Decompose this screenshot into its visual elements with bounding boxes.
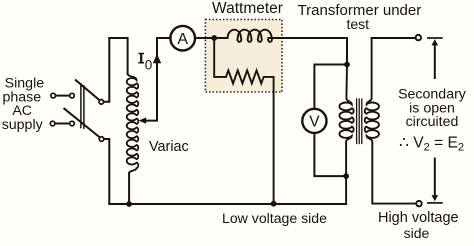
junction pressure coil bottom rail [271, 201, 277, 207]
wire pole 1 contact to top rail [104, 38, 110, 102]
wire primary top riser [346, 38, 348, 65]
junction node wattmeter input [211, 35, 217, 41]
wire ammeter to wattmeter [195, 37, 214, 39]
svg-text:side: side [404, 225, 430, 241]
svg-text:0: 0 [145, 58, 153, 73]
switch pole 1 fixed contact [99, 100, 104, 105]
svg-text:A: A [177, 31, 188, 48]
label I0 [138, 53, 152, 73]
wattmeter box W [205, 20, 282, 93]
svg-text:High voltage: High voltage [378, 210, 459, 226]
svg-text:test: test [347, 16, 370, 32]
bottom rail wire [109, 203, 346, 205]
terminal secondary bottom [416, 201, 421, 206]
switch mechanical link [81, 84, 84, 128]
wire variac bottom to rail [128, 173, 130, 204]
svg-text:∴ V2 = E2: ∴ V2 = E2 [399, 135, 464, 154]
switch pole 2 blade [64, 109, 100, 138]
svg-text:Variac: Variac [149, 139, 189, 155]
label High voltage side [378, 210, 459, 241]
junction node primary bottom [343, 173, 349, 179]
dimension bar top [428, 37, 442, 39]
wire secondary top to terminal [372, 37, 416, 39]
label Single phase AC supply [2, 75, 45, 132]
junction variac bottom rail [126, 201, 132, 207]
wattmeter pressure coil resistor [214, 38, 273, 204]
voltmeter V [302, 109, 326, 133]
wire wiper riser to ammeter [157, 37, 170, 39]
svg-text:V: V [309, 113, 320, 130]
terminal secondary top [416, 35, 421, 40]
switch pole 2 fixed contact [99, 137, 104, 142]
wire top rail to variac [109, 38, 127, 74]
current direction arrow I0 [153, 54, 161, 63]
switch pole 1 supply terminals [51, 93, 74, 98]
label Secondary is open circuited V2=E2 [398, 87, 467, 154]
transformer secondary winding [365, 38, 417, 204]
wattmeter current coil [214, 30, 347, 42]
svg-text:supply: supply [2, 117, 44, 133]
svg-text:Wattmeter: Wattmeter [212, 0, 283, 17]
transformer primary winding [339, 65, 353, 205]
wire voltmeter bottom to junction [314, 133, 346, 176]
dimension arrow down [432, 159, 439, 202]
ammeter A [170, 26, 195, 51]
wire junction to voltmeter top [314, 65, 347, 109]
svg-text:circuited: circuited [406, 114, 459, 130]
variac coil [127, 74, 139, 173]
dimension bar bottom [428, 202, 442, 204]
svg-text:Low voltage side: Low voltage side [222, 210, 327, 226]
dimension arrow up [432, 39, 439, 78]
junction node primary top [344, 62, 350, 68]
label Transformer under test [298, 2, 422, 32]
wire pole 2 contact to bottom rail [104, 139, 109, 204]
variac wiper arrow [139, 38, 157, 124]
transformer core [357, 99, 362, 144]
switch pole 1 blade [76, 80, 100, 100]
switch pole 2 supply terminals [50, 121, 74, 126]
